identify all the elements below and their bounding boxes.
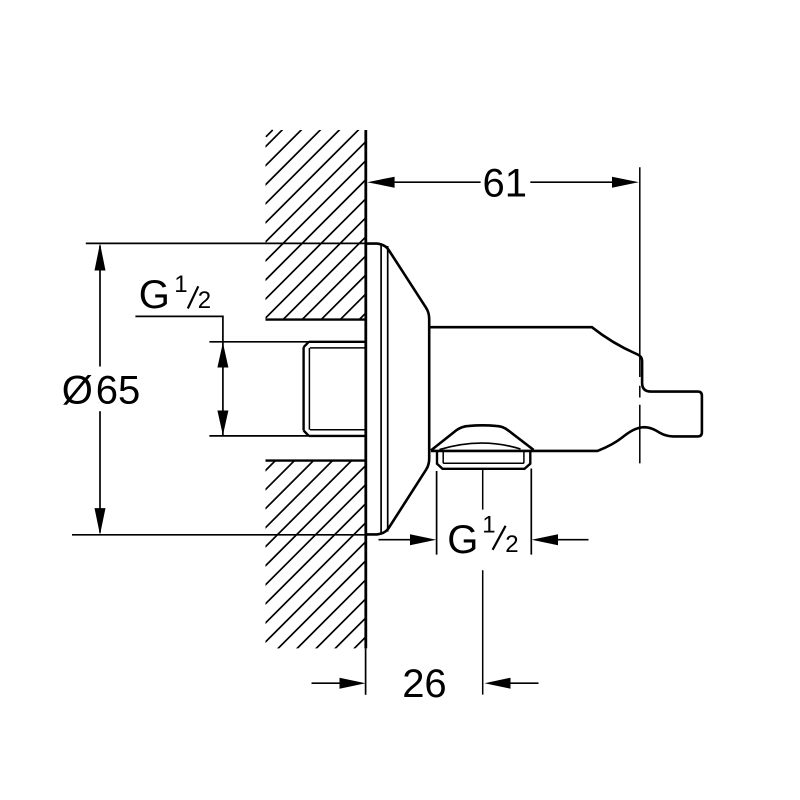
outlet nut inner edges (443, 452, 524, 464)
svg-text:61: 61 (483, 162, 528, 206)
G 1/2 top dimension line (222, 342, 224, 436)
dimension diameter 65 bottom arrowhead (95, 508, 106, 535)
dimension 26 right arrow (511, 682, 539, 684)
svg-text:Ø: Ø (62, 368, 93, 412)
G 1/2 bottom left arrow (379, 539, 411, 541)
svg-text:G: G (447, 518, 478, 562)
dimension 61 left arrowhead (367, 177, 394, 188)
svg-text:65: 65 (96, 368, 141, 412)
G 1/2 top extension lines (209, 342, 309, 436)
svg-text:2: 2 (198, 287, 211, 314)
G 1/2 top up arrowhead (217, 343, 228, 368)
outlet dome (431, 425, 534, 450)
dimension 26 left arrow (312, 682, 340, 684)
wall hole bottom edge (266, 459, 367, 461)
svg-text:2: 2 (505, 531, 518, 558)
wall hatch section (0, 125, 800, 660)
svg-text:G: G (139, 273, 170, 317)
hatch corner stub (266, 130, 273, 137)
escutcheon outline (366, 244, 429, 535)
dimension 61 line (395, 181, 614, 183)
svg-text:26: 26 (402, 662, 447, 706)
dimension 61 right arrowhead (612, 177, 639, 188)
dimension diameter 65 line (99, 246, 101, 533)
svg-text:1: 1 (174, 271, 187, 298)
wall hole top edge (266, 318, 367, 320)
outlet nut (437, 451, 530, 469)
holder axis centerline (639, 167, 641, 463)
escutcheon rim edge lines (381, 245, 388, 533)
holder body outline (429, 327, 702, 451)
outlet centerline (482, 470, 484, 695)
threaded nipple G1/2 (304, 342, 366, 436)
outlet extension lines (437, 469, 532, 555)
G 1/2 top down arrowhead (217, 411, 228, 436)
svg-text:1: 1 (482, 511, 495, 538)
G 1/2 bottom right arrow (558, 539, 589, 541)
G 1/2 top leader line (135, 316, 223, 341)
dimension diameter 65 top arrowhead (95, 243, 106, 270)
dimension diameter 65 extension lines (72, 243, 368, 534)
wall face extension line (365, 648, 367, 694)
nipple thread root lines (309, 348, 365, 430)
wall face line (364, 130, 367, 648)
outlet shoulder arc (440, 443, 521, 450)
